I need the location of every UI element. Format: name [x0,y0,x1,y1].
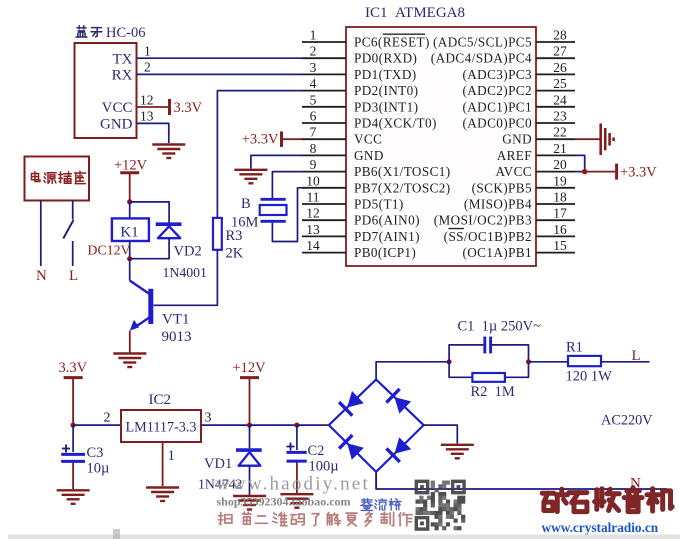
svg-text:B: B [241,196,251,212]
wire R1 to L terminal [601,361,650,363]
svg-text:15: 15 [553,238,567,253]
svg-text:8: 8 [310,141,317,156]
svg-text:(MISO)PB4: (MISO)PB4 [464,197,532,212]
junction at relay bottom [127,256,132,261]
IC1 pin 2 stub and number [302,57,346,59]
diode VD2 cathode bar [156,222,182,226]
svg-text:(ADC1)PC1: (ADC1)PC1 [462,99,532,114]
svg-text:(ADC0)PC0: (ADC0)PC0 [462,116,532,131]
wire C3 to ground [72,463,74,489]
wire IC1 pin 22 to ground [575,138,600,140]
svg-text:(ADC4/SDA)PC4: (ADC4/SDA)PC4 [431,51,532,66]
resistor R2 [472,373,505,382]
svg-text:21: 21 [553,141,567,156]
svg-text:VT1: VT1 [162,312,190,328]
diode VD1 cathode bar [236,448,262,452]
wire +12V stem [129,173,131,202]
svg-text:PD2(INT0): PD2(INT0) [354,83,418,98]
svg-text:www.crystalradio.cn: www.crystalradio.cn [542,520,659,535]
svg-text:PB7(X2/TOSC2): PB7(X2/TOSC2) [354,180,451,195]
wire HC-06 RX (pin 2) to IC1 pin 3 [137,73,303,75]
wire C2 to ground [296,463,298,494]
diode D3 bridge top-right [394,397,411,414]
crystal B1 bottom plate [261,220,286,223]
wire VD2 bottom branch [130,238,169,259]
wire +3.3V to IC1 pin 7 [283,138,302,140]
junction C1/R2 right [526,359,531,364]
watermark CJK line sao miao er wei ma liao jie geng duo zhi zuo [219,513,232,525]
wire R2 bottom branch left [449,362,472,378]
wire IC1 pin 21 AREF down to AVCC net [575,155,585,171]
svg-text:4: 4 [310,76,317,91]
power +3.3V bar at pin 7 [280,131,283,147]
wire relay junction down to VT1 collector [129,259,131,281]
svg-text:N: N [36,268,47,284]
svg-text:7: 7 [310,125,317,140]
wire VD1 to ground [249,466,251,495]
wire +12V node to C2 node [250,424,297,426]
svg-text:9013: 9013 [162,329,192,345]
svg-text:VD2: VD2 [174,244,202,260]
switch S1 blade [63,220,73,239]
svg-text:+3.3V: +3.3V [620,165,657,181]
svg-text:RX: RX [112,68,133,84]
IC1 pin 11 stub and number [302,203,346,205]
diode D1 bridge top-left [347,391,364,408]
bridge rectifier outline [329,380,424,472]
wire bridge top corner riser [376,362,449,380]
wire HC-06 GND pin 13 down to ground [137,123,169,143]
svg-text:C1 1µ 250V~: C1 1µ 250V~ [458,319,542,335]
svg-text:100µ: 100µ [309,459,339,475]
wire HC-06 TX (pin 1) to IC1 pin 2 [137,57,303,59]
diode D2 bridge bottom-left [347,443,364,460]
IC1 pin 22 stub and number [536,138,575,140]
transistor VT1 emitter lead with arrow [133,317,151,329]
power +3.3V bar right [615,164,618,180]
wire IC1 pin 8 to ground [251,155,302,168]
relay K1 coil box [112,218,149,241]
svg-text:24: 24 [553,92,567,107]
svg-text:GND: GND [100,117,133,133]
wire to R1 [529,361,569,363]
power +12V bar [120,171,139,174]
transistor Q1 VT1 collector lead [130,281,150,295]
power 3.3V bar [64,376,83,379]
svg-text:GND: GND [502,132,532,147]
svg-text:PD3(INT1): PD3(INT1) [354,99,418,114]
IC1 pin 15 stub and number [536,252,575,254]
ground (rotated) at IC1 pin 22 [599,124,602,156]
svg-text:DC12V: DC12V [88,243,131,258]
IC1 pin 4 stub and number [302,90,346,92]
ground at C2 [280,493,313,495]
svg-text:2: 2 [310,44,317,59]
ground at IC1 pin 8 [234,169,267,171]
diode VD1 stem [249,425,251,448]
svg-text:2K: 2K [226,246,244,262]
wire IC1 pin 20 AVCC [575,171,585,173]
IC1 pin 5 stub and number [302,106,346,108]
svg-text:R1: R1 [566,340,583,356]
wire R2 bottom branch right [505,362,529,378]
capacitor C3 plus sign [62,448,70,450]
svg-text:3: 3 [310,60,317,75]
IC1 pin 23 stub and number [536,122,575,124]
svg-text:27: 27 [553,44,567,59]
capacitor C2 plus sign [287,446,295,448]
svg-text:PD7(AIN1): PD7(AIN1) [354,229,420,244]
label zheng liu qiao (bridge) CJK blue [361,499,373,511]
svg-text:16: 16 [553,222,567,237]
wire IC1 pin 4 to R3 [217,91,302,218]
wire R3 bottom to VT1 base [154,250,218,305]
IC1 pin 17 stub and number [536,219,575,221]
svg-text:LM1117-3.3: LM1117-3.3 [125,420,196,436]
svg-text:11: 11 [307,190,320,205]
wire junction to +3.3V bar [585,171,615,173]
svg-text:2: 2 [104,411,111,426]
diode VD1 triangle [239,452,261,466]
logo kuang shi shou yin ji (crystalradio) [542,489,567,511]
svg-text:1: 1 [310,28,317,43]
wire 3.3V stem [72,378,74,426]
IC1 pin 3 stub and number [302,73,346,75]
crystal B1 body [260,205,287,215]
capacitor C3 wire from junction [72,425,74,452]
diode VD2 triangle [158,226,180,238]
svg-text:www.haodiy.net: www.haodiy.net [216,474,370,495]
svg-text:PD4(XCK/T0): PD4(XCK/T0) [354,116,437,131]
svg-text:PD1(TXD): PD1(TXD) [354,67,417,82]
svg-text:L: L [69,268,78,284]
regulator IC2 LM1117-3.3 body [121,410,201,442]
wire bridge bottom to N rail [376,472,667,489]
capacitor C3 plates [61,453,85,456]
resistor R3 [213,218,222,250]
wire crystal bottom to IC1 pin 10 [272,188,302,242]
svg-text:AC220V: AC220V [601,413,653,429]
ground at VT1 emitter [113,352,146,354]
wire junction to relay K1 [129,202,131,219]
svg-text:10µ: 10µ [87,461,110,477]
svg-text:PD6(AIN0): PD6(AIN0) [354,213,420,228]
resistor R1 [568,356,601,366]
IC1 pin 25 stub and number [536,90,575,92]
QR code watermark [416,481,466,531]
svg-text:17: 17 [553,206,567,221]
svg-text:1: 1 [144,44,151,59]
IC1 pin 10 stub and number [302,187,346,189]
wire IC1 pin 9 to crystal top [272,172,302,198]
svg-text:9: 9 [310,157,317,172]
wire L lower [72,241,74,266]
svg-text:C2: C2 [308,443,325,459]
crystal B1 top plate [261,198,286,201]
IC1 pin 27 stub and number [536,57,575,59]
wire relay K1 bottom to junction [129,241,131,259]
IC1 pin 16 stub and number [536,235,575,237]
svg-text:1: 1 [168,448,176,464]
svg-text:+12V: +12V [114,158,148,174]
diode D4 bridge bottom-right [395,437,412,454]
svg-text:18: 18 [553,190,567,205]
IC1 pin 20 stub and number [536,171,575,173]
svg-text:3.3V: 3.3V [59,360,88,376]
svg-text:AREF: AREF [497,148,532,163]
svg-text:AVCC: AVCC [495,164,532,179]
power +3.3V bar at HC-06 VCC [168,99,171,115]
op-amp U1 : IC1 ATMEGA8 body [346,27,536,266]
svg-text:19: 19 [553,173,567,188]
IC1 pin 26 stub and number [536,73,575,75]
svg-text:(SCK)PB5: (SCK)PB5 [472,180,532,195]
wire +12V stem bottom [249,378,251,426]
svg-text:L: L [632,348,641,364]
svg-text:22: 22 [553,125,567,140]
ground at bridge right [441,444,474,446]
svg-text:13: 13 [306,222,320,237]
svg-text:120 1W: 120 1W [566,369,613,385]
IC1 pin 24 stub and number [536,106,575,108]
svg-text:(SS/OC1B)PB2: (SS/OC1B)PB2 [444,229,532,244]
svg-text:IC2: IC2 [149,392,172,408]
svg-text:shop35392304.taobao.com: shop35392304.taobao.com [217,495,351,509]
junction at relay top [127,199,132,204]
svg-text:28: 28 [553,28,567,43]
svg-text:1N4001: 1N4001 [163,265,208,280]
capacitor C2 plates [287,451,307,454]
svg-text:2: 2 [144,60,151,75]
svg-text:K1: K1 [120,225,138,241]
svg-text:PB6(X1/TOSC1): PB6(X1/TOSC1) [354,164,451,179]
junction AVCC/AREF [582,169,587,174]
capacitor C2 stem [296,425,298,450]
svg-text:R2 1M: R2 1M [471,384,515,400]
wire C1 top branch left [449,345,483,362]
IC1 pin 8 stub and number [302,154,346,156]
power +12V bar bottom [240,376,259,379]
svg-text:20: 20 [553,157,567,172]
svg-text:13: 13 [140,109,154,124]
wire IC2 pin 1 down [162,442,164,486]
IC1 pin 18 stub and number [536,203,575,205]
wire VD2 top branch [130,202,169,223]
junction at +12V / VD1 [247,423,252,428]
junction at C3 [71,423,76,428]
wire IC2 pin 3 to +12V node [201,424,250,426]
svg-text:25: 25 [553,76,567,91]
svg-text:PB0(ICP1): PB0(ICP1) [354,245,416,260]
IC1 pin 28 stub and number [536,41,575,43]
svg-text:3.3V: 3.3V [174,100,203,116]
svg-text:(OC1A)PB1: (OC1A)PB1 [462,245,532,260]
ground at C3 [57,489,90,491]
svg-text:23: 23 [553,109,567,124]
svg-text:6: 6 [310,109,317,124]
page edge strip [8,535,680,539]
IC1 pin 13 stub and number [302,235,346,237]
svg-text:PC6(RESET): PC6(RESET) [354,35,430,50]
svg-text:(ADC5/SCL)PC5: (ADC5/SCL)PC5 [433,35,532,50]
svg-text:(MOSI/OC2)PB3: (MOSI/OC2)PB3 [434,213,532,228]
IC1 pin 7 stub and number [302,138,346,140]
svg-text:5: 5 [310,92,317,107]
svg-text:12: 12 [306,206,320,221]
wire VT1 emitter to ground [129,331,131,353]
svg-text:14: 14 [306,238,320,253]
module U2 HC-06 body [75,43,137,138]
wire C1 top branch right [492,345,529,362]
svg-text:C3: C3 [87,445,104,461]
svg-text:26: 26 [553,60,567,75]
IC1 pin 21 stub and number [536,154,575,156]
wire bridge right corner to ground [424,425,458,443]
IC1 pin 6 stub and number [302,122,346,124]
svg-text:HC-06: HC-06 [106,25,145,41]
ground at HC-06 GND [152,143,185,145]
svg-text:GND: GND [354,148,384,163]
IC1 pin 12 stub and number [302,219,346,221]
wire C2 node to bridge left corner [297,424,329,426]
IC1 pin 14 stub and number [302,252,346,254]
wire HC-06 VCC pin 12 to 3.3V [137,106,169,108]
capacitor C1 plates [483,337,486,354]
ground at VD1 [233,495,266,497]
svg-text:IC1 ATMEGA8: IC1 ATMEGA8 [365,5,465,21]
power socket box (CJK dian yuan cha zuo) [25,157,90,201]
wire N from socket [40,201,42,267]
svg-text:VCC: VCC [102,100,133,116]
transistor VT1 base bar [148,289,153,324]
svg-text:VCC: VCC [354,132,382,147]
ground at IC2 pin 1 [146,486,179,488]
svg-text:(ADC2)PC2: (ADC2)PC2 [462,83,532,98]
svg-text:10: 10 [306,173,320,188]
IC1 pin 9 stub and number [302,171,346,173]
svg-text:VD1: VD1 [204,456,232,472]
junction C1/R2 left [447,359,452,364]
IC1 pin 19 stub and number [536,187,575,189]
module HC-06 title (CJK "lan ya" + HC-06) [76,26,87,37]
svg-text:PD5(T1): PD5(T1) [354,197,404,212]
wire 3.3V rail to IC2 pin 2 [73,424,121,426]
svg-text:12: 12 [140,92,154,107]
wire L upper from socket [72,201,74,220]
IC1 pin 1 stub and number [302,41,346,43]
svg-text:3: 3 [205,411,212,426]
svg-text:TX: TX [113,52,133,68]
svg-text:(ADC3)PC3: (ADC3)PC3 [462,67,532,82]
svg-text:16M: 16M [231,215,259,231]
svg-text:+3.3V: +3.3V [242,132,279,148]
junction at C2 [294,423,299,428]
svg-text:PD0(RXD): PD0(RXD) [354,51,417,66]
svg-text:+12V: +12V [233,360,267,376]
